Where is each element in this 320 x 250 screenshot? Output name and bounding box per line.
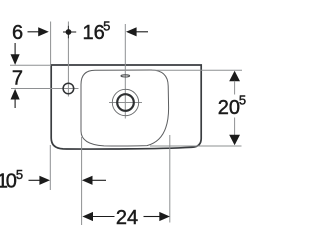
dim 16.5 dot stub line [63,31,76,33]
dim 10.5 tail line [29,179,40,181]
drain inner circle [117,94,134,111]
bowl right extension line [169,135,171,223]
dim 6 arrow right [38,27,49,36]
svg-text:5: 5 [103,19,110,34]
bowl left extension line [81,137,83,225]
basin outer outline [51,65,201,149]
tap hole axis vertical line [67,22,69,97]
drain outer circle [112,89,138,115]
extension line left edge bottom [49,145,51,190]
dim 24 arrow right [159,212,170,221]
svg-text:7: 7 [12,68,23,90]
dim 10.5 arrow left [82,176,93,185]
bowl inner outline [81,70,169,146]
svg-text:5: 5 [16,167,23,182]
overflow slot [121,75,130,77]
svg-text:6: 6 [12,22,23,44]
dim 6 tail line [28,31,39,33]
dim 7 arrow up [11,89,20,100]
dim 20.5 lower stem [234,118,236,136]
dim 24 right tail line [144,216,160,218]
dim 7 upper stem [14,43,16,55]
dim 16.5 dot marker [66,29,72,35]
tap hole circle [63,83,74,94]
dim 7 arrow down [11,54,20,65]
dim 24 arrow left [82,212,93,221]
20.5 bottom reference line [150,145,242,147]
dim 16.5 tail line [137,31,149,33]
drain axis vertical line [124,24,126,119]
dim 24 left tail line [93,216,115,218]
dim 20.5 top arrow up [229,71,240,82]
dim 10.5 right tail line [92,179,106,181]
20.5 top reference line [152,69,242,71]
dim 20.5 upper stem [234,81,236,95]
top edge extension line left (7 dim top ref) [10,64,51,66]
extension line left edge top (x=50.5) [50,22,52,65]
dim 10.5 arrow right [39,176,50,185]
dim 16.5 arrow left [126,27,137,36]
dim 20.5 bottom arrow down [229,135,240,146]
drain horizontal center line [109,102,142,104]
dim 7 lower stem [14,99,16,108]
svg-text:16: 16 [83,22,105,44]
svg-text:24: 24 [116,207,138,229]
svg-text:20: 20 [218,97,240,119]
tap hole horizontal center line (7 dim bottom ref) [11,88,79,90]
svg-text:5: 5 [239,93,246,108]
